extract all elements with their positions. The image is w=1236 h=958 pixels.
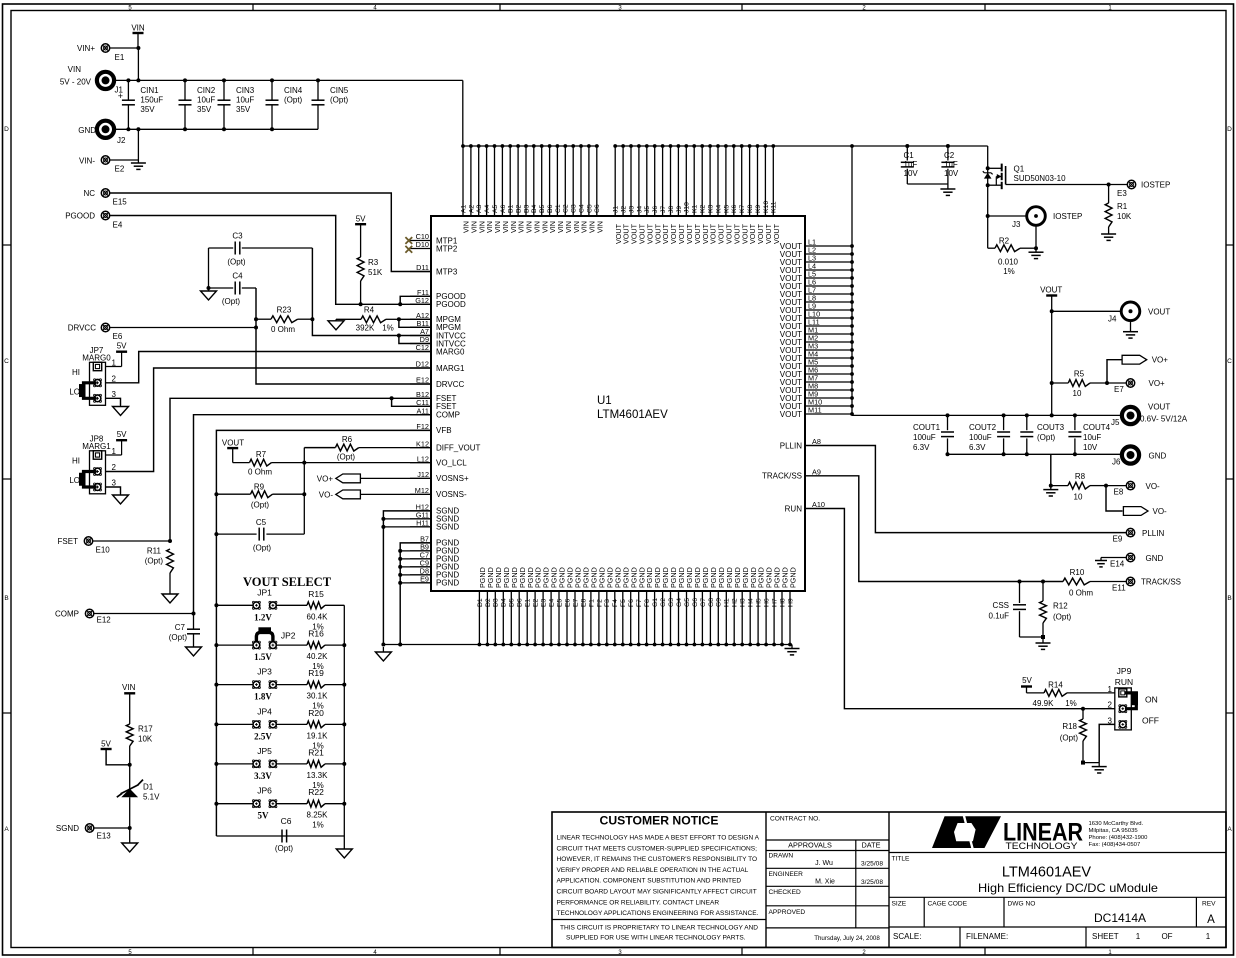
op-amp U1 LTM4601AEV module body (431, 216, 805, 591)
svg-text:J4: J4 (636, 206, 643, 213)
wire COMP net E12 to A11 (94, 613, 194, 615)
turret E11 TRACK/SS (1112, 577, 1181, 592)
svg-text:K8: K8 (747, 204, 754, 213)
svg-text:5V: 5V (356, 215, 366, 224)
svg-text:51K: 51K (368, 268, 383, 277)
svg-text:COMP: COMP (55, 610, 79, 619)
svg-text:H9: H9 (787, 598, 794, 607)
svg-text:R20: R20 (308, 708, 324, 718)
svg-text:C4: C4 (578, 204, 585, 213)
VOUT power bar at R7 (222, 438, 244, 462)
coax jack J4 VOUT (1050, 302, 1171, 324)
turret E9 PLLIN (1113, 528, 1165, 543)
svg-text:R4: R4 (364, 306, 375, 315)
svg-text:H1: H1 (724, 598, 731, 607)
wire SGND pins bus (383, 511, 431, 645)
contract / approvals table (888, 812, 890, 947)
wire PGND pins bus (400, 543, 431, 645)
svg-text:D1: D1 (477, 598, 484, 607)
wire VIN top rail (115, 79, 463, 81)
svg-text:A3: A3 (476, 204, 483, 213)
ground bus under U1 (383, 644, 792, 646)
svg-text:10: 10 (1073, 389, 1082, 398)
svg-text:C5: C5 (586, 204, 593, 213)
resistor R7 0 Ohm (233, 450, 431, 477)
svg-text:PERFORMANCE OR RELIABILITY. C: PERFORMANCE OR RELIABILITY. CONTACT LINE… (557, 899, 720, 906)
svg-text:E12: E12 (97, 616, 112, 625)
svg-text:GND: GND (1146, 554, 1164, 563)
svg-text:K1: K1 (692, 204, 699, 213)
svg-text:ENGINEER: ENGINEER (769, 871, 804, 878)
svg-text:3/25/08: 3/25/08 (861, 861, 883, 868)
svg-text:100uF: 100uF (969, 433, 992, 442)
svg-text:1%: 1% (1003, 267, 1015, 276)
svg-text:F8: F8 (644, 599, 651, 607)
resistor R19 30.1K 1% (214, 668, 346, 711)
svg-text:CIN1: CIN1 (140, 86, 159, 95)
svg-text:H6: H6 (764, 598, 771, 607)
svg-text:E2: E2 (115, 165, 125, 174)
svg-text:CIN5: CIN5 (330, 86, 349, 95)
svg-text:VOUT SELECT: VOUT SELECT (243, 575, 332, 589)
svg-text:J5: J5 (1111, 418, 1120, 427)
ground symbol below R11 (169, 592, 171, 594)
svg-text:D4: D4 (501, 598, 508, 607)
wire J3 center to ground (1035, 226, 1037, 249)
svg-text:R3: R3 (368, 258, 379, 267)
capacitor CIN1 (118, 78, 163, 131)
capacitor C6 (Opt) (275, 816, 294, 853)
svg-text:VO+: VO+ (1152, 356, 1169, 365)
svg-text:(Opt): (Opt) (1037, 433, 1056, 442)
svg-text:D: D (1227, 126, 1232, 133)
jumper JP1 1.2V (216, 587, 307, 622)
svg-text:GND: GND (1149, 452, 1167, 461)
svg-text:(Opt): (Opt) (1053, 613, 1072, 622)
node VO- flag into VOSNS- (319, 490, 431, 499)
svg-text:H7: H7 (772, 598, 779, 607)
svg-text:E5: E5 (556, 598, 563, 607)
svg-text:COUT3: COUT3 (1037, 423, 1065, 432)
5V power bar at R14 (1021, 676, 1033, 693)
svg-text:D10: D10 (416, 240, 429, 249)
svg-text:OF: OF (1161, 932, 1172, 941)
svg-text:E3: E3 (1117, 189, 1127, 198)
svg-text:150uF: 150uF (140, 96, 163, 105)
svg-text:HI: HI (72, 457, 80, 466)
turret E12 COMP (55, 609, 111, 624)
capacitor COUT3 (1020, 413, 1064, 456)
svg-text:A4: A4 (484, 204, 491, 213)
resistor R10 0 Ohm (1063, 568, 1126, 598)
turret E3 IOSTEP (1107, 180, 1171, 198)
svg-text:CAGE CODE: CAGE CODE (928, 901, 968, 908)
svg-text:E11: E11 (1112, 584, 1126, 593)
svg-text:MTP2: MTP2 (436, 244, 458, 253)
svg-text:10uF: 10uF (197, 96, 215, 105)
wire C4/R23/E6 vertical to DRVCC pin E12 (256, 288, 431, 384)
svg-text:R7: R7 (256, 450, 267, 459)
svg-text:5V: 5V (258, 811, 270, 821)
svg-text:A1: A1 (460, 204, 467, 213)
svg-text:1: 1 (1206, 932, 1211, 941)
wire NC net E15 to MTP3 (110, 193, 431, 272)
svg-text:E8: E8 (580, 598, 587, 607)
svg-text:MARG0: MARG0 (436, 347, 465, 356)
svg-text:JP9: JP9 (1117, 666, 1132, 676)
svg-text:APPROVED: APPROVED (769, 909, 806, 916)
svg-text:C1: C1 (555, 204, 562, 213)
svg-text:J3: J3 (628, 206, 635, 213)
resistor R3 51K (357, 224, 383, 306)
wire select right rail (343, 605, 345, 836)
svg-text:E2: E2 (533, 598, 540, 607)
svg-text:ON: ON (1145, 695, 1158, 705)
svg-text:10K: 10K (1117, 212, 1132, 221)
svg-text:R5: R5 (1074, 370, 1085, 379)
svg-text:JP6: JP6 (257, 786, 272, 796)
title block outline (552, 812, 1226, 947)
transistor Q1 SUD50N03-10 (983, 146, 1127, 248)
svg-text:5V: 5V (117, 342, 127, 351)
svg-text:10uF: 10uF (1083, 433, 1101, 442)
svg-text:PLLIN: PLLIN (780, 441, 802, 450)
wire VOUT output rail (852, 414, 1121, 416)
ground symbol at E14 (1100, 558, 1102, 561)
svg-text:COMP: COMP (436, 411, 460, 420)
no-connect X marks on MTP1/MTP2 pins (405, 237, 412, 253)
svg-text:C6: C6 (594, 204, 601, 213)
svg-text:K10: K10 (763, 201, 770, 213)
svg-text:DRAWN: DRAWN (769, 853, 794, 860)
svg-text:E8: E8 (1114, 488, 1124, 497)
svg-text:CUSTOMER NOTICE: CUSTOMER NOTICE (600, 814, 719, 828)
svg-text:SUD50N03-10: SUD50N03-10 (1014, 174, 1067, 183)
resistor R1 10K (1105, 185, 1132, 233)
svg-text:10: 10 (1074, 493, 1083, 502)
svg-text:1.5V: 1.5V (254, 652, 272, 662)
svg-text:K2: K2 (700, 204, 707, 213)
svg-text:OFF: OFF (1142, 716, 1159, 726)
svg-text:Milpitas, CA 95035: Milpitas, CA 95035 (1089, 828, 1139, 834)
5V power bar at JP7 pin1 (106, 342, 127, 367)
svg-text:R2: R2 (999, 237, 1010, 246)
capacitor COUT2 (969, 413, 1010, 456)
svg-text:F4: F4 (612, 599, 619, 607)
svg-text:TECHNOLOGY APPLICATIONS ENGINE: TECHNOLOGY APPLICATIONS ENGINEERING FOR … (557, 910, 759, 917)
svg-text:VOUT: VOUT (780, 410, 802, 419)
svg-text:R6: R6 (342, 435, 353, 444)
node VIN junction at E1 (136, 46, 140, 50)
svg-text:Phone: (408)432-1900: Phone: (408)432-1900 (1089, 835, 1149, 841)
svg-text:H8: H8 (779, 598, 786, 607)
jumper JP3 1.8V (216, 667, 307, 702)
svg-text:A: A (4, 826, 9, 833)
svg-text:1.2V: 1.2V (254, 612, 272, 622)
svg-text:G4: G4 (676, 598, 683, 607)
svg-text:3: 3 (112, 390, 117, 399)
svg-text:HI: HI (72, 368, 80, 377)
svg-text:J6: J6 (652, 206, 659, 213)
node VO- flag output (1106, 486, 1167, 516)
turret E2 VIN- (79, 156, 138, 174)
svg-text:K7: K7 (739, 204, 746, 213)
ground symbol below J3/R2 (1035, 248, 1037, 252)
svg-text:F5: F5 (620, 599, 627, 607)
svg-text:R16: R16 (308, 629, 324, 639)
svg-text:VIN: VIN (131, 24, 145, 33)
svg-text:RUN: RUN (785, 504, 803, 513)
svg-text:VERIFY PROPER AND RELIABLE OPE: VERIFY PROPER AND RELIABLE OPERATION IN … (557, 867, 749, 874)
svg-text:35V: 35V (236, 105, 251, 114)
turret E15 NC (83, 189, 127, 207)
svg-text:C3: C3 (232, 232, 243, 241)
svg-text:APPLICATION. COMPONENT SUBSTIT: APPLICATION. COMPONENT SUBSTITUTION AND … (557, 878, 742, 885)
U1 left pin stubs and names (410, 232, 481, 588)
svg-text:A: A (1207, 914, 1215, 926)
jumper JP9 RUN (1108, 666, 1159, 730)
resistor R11 (Opt) (145, 547, 174, 593)
svg-text:VIN: VIN (595, 221, 604, 233)
resistor R20 19.1K 1% (214, 708, 346, 751)
ground symbol below J4 (1130, 321, 1132, 332)
svg-text:R19: R19 (308, 668, 324, 678)
U1 bottom PGND pins with ground bus (477, 567, 798, 646)
turret E1 VIN+ (77, 44, 138, 62)
svg-text:E9: E9 (1113, 535, 1123, 544)
svg-text:6.3V: 6.3V (969, 443, 986, 452)
svg-text:REV: REV (1202, 901, 1216, 908)
resistor R15 60.4K 1% (214, 589, 344, 632)
svg-text:PGND: PGND (436, 579, 459, 588)
svg-text:SCALE:: SCALE: (893, 932, 921, 941)
svg-text:J6: J6 (1112, 458, 1121, 467)
svg-text:0 Ohm: 0 Ohm (1069, 589, 1093, 598)
wire VIN rail to U1 top bus riser (462, 80, 464, 146)
resistor R14 49.9K 1% (1027, 680, 1115, 708)
capacitor C3 (Opt) (209, 232, 313, 267)
svg-text:D: D (4, 126, 9, 133)
svg-text:LTM4601AEV: LTM4601AEV (1002, 865, 1092, 881)
svg-text:JP3: JP3 (257, 667, 272, 677)
svg-text:D1: D1 (143, 783, 154, 792)
svg-text:J2: J2 (621, 206, 628, 213)
svg-text:CIRCUIT BOARD LAYOUT MAY SIGNI: CIRCUIT BOARD LAYOUT MAY SIGNIFICANTLY A… (557, 889, 757, 896)
diode D1 5.1V zener (117, 765, 160, 828)
svg-text:R8: R8 (1075, 472, 1086, 481)
svg-text:F6: F6 (628, 599, 635, 607)
ground symbol at right end of ground bus (791, 645, 793, 649)
svg-text:VOUT: VOUT (1148, 308, 1170, 317)
svg-text:VIN-: VIN- (79, 157, 95, 166)
ground symbol below JP9 (1098, 763, 1100, 767)
svg-text:(Opt): (Opt) (251, 501, 270, 510)
svg-text:C6: C6 (281, 816, 292, 826)
svg-text:E1: E1 (115, 53, 125, 62)
svg-text:G1: G1 (652, 598, 659, 607)
svg-text:CIN4: CIN4 (284, 86, 303, 95)
svg-text:COUT4: COUT4 (1083, 423, 1111, 432)
svg-text:3: 3 (112, 479, 117, 488)
svg-text:R14: R14 (1048, 680, 1063, 689)
svg-text:High Efficiency DC/DC uModule: High Efficiency DC/DC uModule (978, 881, 1158, 895)
svg-text:H2: H2 (732, 598, 739, 607)
svg-text:(Opt): (Opt) (253, 544, 272, 553)
svg-text:C2: C2 (944, 151, 955, 160)
wire FSET net E10 to B12/C11 (93, 540, 170, 542)
svg-text:0.6V- 5V/12A: 0.6V- 5V/12A (1140, 415, 1188, 424)
wire PGOOD net E4 to F11/G12 (110, 216, 431, 305)
wire VIN vertical from bar to J1 rail (137, 48, 139, 80)
svg-text:C7: C7 (175, 623, 186, 632)
svg-text:E10: E10 (96, 546, 111, 555)
svg-text:TECHNOLOGY: TECHNOLOGY (1006, 841, 1078, 851)
svg-text:10V: 10V (944, 169, 959, 178)
turret E14 GND (1101, 553, 1164, 568)
svg-text:1uF: 1uF (904, 160, 918, 169)
U1 right pins PLLIN A8, TRACK/SS A9, RUN A10 (762, 437, 825, 513)
svg-text:C3: C3 (571, 204, 578, 213)
svg-text:F1: F1 (588, 599, 595, 607)
svg-text:E3: E3 (541, 598, 548, 607)
svg-text:SGND: SGND (436, 523, 459, 532)
svg-text:2.5V: 2.5V (254, 731, 272, 741)
svg-text:PGOOD: PGOOD (436, 300, 466, 309)
svg-text:D6: D6 (517, 598, 524, 607)
svg-text:SGND: SGND (56, 824, 79, 833)
svg-text:B: B (1227, 595, 1231, 602)
svg-text:CONTRACT NO.: CONTRACT NO. (770, 816, 820, 823)
svg-text:30.1K: 30.1K (307, 692, 329, 701)
svg-text:J7: J7 (660, 206, 667, 213)
svg-text:E1: E1 (525, 598, 532, 607)
svg-text:MARG1: MARG1 (436, 364, 465, 373)
svg-text:VOSNS-: VOSNS- (436, 490, 467, 499)
svg-text:2: 2 (1108, 701, 1113, 710)
svg-text:G5: G5 (684, 598, 691, 607)
capacitor CIN5 (312, 78, 349, 129)
svg-text:JP5: JP5 (257, 746, 272, 756)
svg-text:DRVCC: DRVCC (436, 380, 465, 389)
ground symbol below E2 (137, 160, 139, 163)
banana jack J6 GND (1112, 446, 1167, 466)
svg-text:VO-: VO- (1146, 482, 1161, 491)
svg-text:0 Ohm: 0 Ohm (271, 325, 295, 334)
svg-text:E7: E7 (572, 598, 579, 607)
wire RUN net A10 to JP9 (805, 509, 1115, 709)
svg-text:TITLE: TITLE (892, 856, 911, 863)
svg-text:DATE: DATE (862, 841, 881, 850)
svg-text:JP1: JP1 (257, 587, 272, 597)
svg-text:10K: 10K (138, 735, 153, 744)
svg-text:R17: R17 (138, 725, 153, 734)
wire CSS to R12 bottom (1020, 636, 1044, 638)
svg-text:(Opt): (Opt) (1060, 734, 1079, 743)
coax jack J3 IOSTEP (986, 207, 1083, 229)
ground symbol JP7 (120, 405, 122, 407)
svg-text:K12: K12 (416, 439, 429, 448)
svg-text:CIN3: CIN3 (236, 86, 255, 95)
svg-text:E4: E4 (113, 221, 123, 230)
svg-text:1uF: 1uF (944, 160, 958, 169)
svg-text:0.1uF: 0.1uF (989, 612, 1010, 621)
svg-text:10uF: 10uF (236, 96, 254, 105)
ground symbol below C2 (947, 184, 949, 189)
svg-text:E4: E4 (549, 598, 556, 607)
svg-text:SUPPLIED FOR USE WITH LINEAR T: SUPPLIED FOR USE WITH LINEAR TECHNOLOGY … (566, 935, 746, 942)
capacitor CSS 0.1uF (989, 582, 1026, 638)
svg-text:IOSTEP: IOSTEP (1053, 212, 1082, 221)
svg-text:10V: 10V (904, 169, 919, 178)
svg-text:SHEET: SHEET (1092, 932, 1119, 941)
resistor R16 40.2K 1% (214, 629, 346, 672)
resistor R4 392K 1% (336, 306, 399, 333)
svg-text:J1: J1 (613, 206, 620, 213)
svg-text:COUT2: COUT2 (969, 423, 997, 432)
jumper JP5 3.3V (216, 746, 307, 781)
svg-text:(Opt): (Opt) (337, 453, 356, 462)
svg-text:DRVCC: DRVCC (68, 324, 97, 333)
svg-text:R22: R22 (308, 787, 324, 797)
svg-text:E13: E13 (97, 832, 112, 841)
ground symbol below R1 (1108, 232, 1110, 234)
capacitor COUT4 (1068, 413, 1110, 456)
wire C3 right down to R23/INTVCC (312, 248, 431, 336)
svg-text:LTM4601AEV: LTM4601AEV (597, 409, 668, 421)
svg-text:TRACK/SS: TRACK/SS (1141, 578, 1181, 587)
VOUT power bar (1040, 286, 1062, 418)
capacitor C5 (Opt) (214, 518, 304, 553)
svg-text:100uF: 100uF (913, 433, 936, 442)
svg-text:B6: B6 (547, 204, 554, 213)
svg-text:E15: E15 (113, 198, 128, 207)
svg-text:40.2K: 40.2K (307, 652, 329, 661)
jumper JP4 2.5V (216, 706, 307, 741)
resistor R6 (Opt) on DIFF_VOUT (304, 435, 431, 462)
svg-text:K4: K4 (715, 204, 722, 213)
ground symbol below select rail (343, 836, 345, 849)
svg-text:TRACK/SS: TRACK/SS (762, 472, 802, 481)
5V power bar at JP8 pin1 (106, 430, 127, 455)
svg-text:19.1K: 19.1K (307, 731, 329, 740)
svg-text:B5: B5 (539, 204, 546, 213)
svg-text:B3: B3 (523, 204, 530, 213)
svg-text:5V: 5V (101, 739, 111, 748)
VIN power rail symbol (131, 24, 145, 49)
svg-text:RUN: RUN (1115, 677, 1133, 687)
svg-text:C: C (1227, 358, 1232, 365)
svg-text:G9: G9 (716, 598, 723, 607)
svg-text:5V: 5V (117, 430, 127, 439)
svg-text:R21: R21 (308, 747, 324, 757)
svg-text:SIZE: SIZE (892, 901, 907, 908)
wire COUT bottom rail (948, 453, 1122, 455)
svg-text:J9: J9 (676, 206, 683, 213)
svg-text:G6: G6 (692, 598, 699, 607)
ground symbol below C7 (193, 646, 195, 647)
wire R18 bottom to ground (1083, 762, 1099, 764)
svg-text:H5: H5 (756, 598, 763, 607)
svg-text:C5: C5 (256, 518, 267, 527)
wire GND drop to E2 (137, 129, 139, 160)
svg-text:THIS CIRCUIT IS PROPRIETARY TO: THIS CIRCUIT IS PROPRIETARY TO LINEAR TE… (560, 925, 758, 932)
svg-text:A: A (1227, 826, 1232, 833)
resistor R9 (Opt) (214, 483, 306, 510)
svg-text:K6: K6 (731, 204, 738, 213)
svg-text:J2: J2 (117, 136, 126, 145)
svg-text:K5: K5 (723, 204, 730, 213)
ground symbol at SGND bus (382, 647, 384, 652)
